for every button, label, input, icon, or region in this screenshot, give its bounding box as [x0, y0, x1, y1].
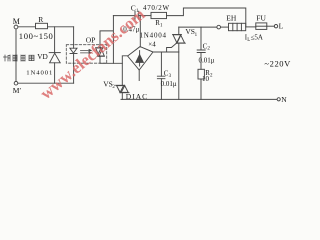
svg-text:L: L [279, 22, 284, 31]
svg-text:1N4001: 1N4001 [26, 69, 53, 76]
wire bridge bottom stub [138, 70, 140, 81]
wire corner down to LED anode [73, 27, 75, 48]
resistor R2 [198, 69, 204, 79]
terminal M' [14, 81, 18, 85]
wire bridge top feed [139, 16, 141, 47]
wire bottom-left bus [18, 82, 74, 84]
capacitor C2 [200, 27, 202, 50]
svg-text:10: 10 [202, 75, 210, 83]
fuse FU [256, 23, 267, 30]
terminal L [274, 25, 277, 28]
wire photo-triac top feed [100, 16, 113, 64]
wire VD bottom lead [54, 63, 56, 83]
svg-text:VS: VS [103, 79, 113, 88]
wire photo-triac bottom to node [100, 56, 122, 63]
capacitor C3 [160, 52, 162, 76]
wire EH row [179, 26, 217, 28]
heater EH [229, 23, 246, 30]
svg-text:×4: ×4 [148, 40, 156, 48]
diode VD [49, 52, 60, 54]
svg-text:FU: FU [256, 13, 266, 22]
triac VS1 gate [167, 43, 177, 52]
svg-text:N: N [281, 95, 287, 104]
optocoupler OP dashed box [66, 45, 106, 64]
svg-text:EH: EH [226, 14, 237, 23]
wire VD top lead [54, 27, 56, 53]
svg-text:~220V: ~220V [264, 59, 291, 69]
svg-text:R: R [38, 15, 43, 24]
svg-text:1N4004: 1N4004 [140, 32, 167, 40]
svg-text:0.01μ: 0.01μ [161, 80, 177, 88]
svg-text:100~150: 100~150 [19, 31, 54, 41]
wire FU to L [267, 25, 275, 27]
wire R to LED corner [48, 26, 74, 28]
bottom bus [121, 98, 277, 100]
svg-text:M′: M′ [13, 86, 22, 95]
resistor R1 [151, 12, 167, 18]
photo-triac of OP [96, 47, 103, 49]
terminal M [14, 25, 18, 29]
wire bridge right to triac column [153, 51, 179, 53]
triac VS1 [178, 27, 180, 34]
opto arrows [81, 49, 92, 51]
wire R1 right, up, top rail [167, 8, 246, 27]
resistor R [36, 23, 48, 28]
wire C1 right to R1 [139, 15, 151, 17]
svg-text:≤5A: ≤5A [251, 34, 263, 42]
wire M down to M' [15, 29, 17, 81]
svg-text:VD: VD [37, 52, 48, 61]
svg-text:0.01μ: 0.01μ [199, 57, 215, 65]
LED of OP [70, 48, 77, 53]
wire M to R [18, 26, 36, 28]
wire EH to FU [246, 26, 256, 28]
DIAC VS2 [116, 84, 125, 86]
svg-text:470/2W: 470/2W [143, 4, 170, 12]
wire C1 left [113, 15, 135, 17]
wire node down to DIAC, stub to bridge left vertex [122, 56, 127, 86]
terminal N [277, 98, 280, 101]
wire LED cathode to bus [73, 54, 75, 84]
svg-text:M: M [13, 17, 20, 26]
label 控制电源VD (control supply) [4, 55, 35, 61]
capacitor C1 [135, 11, 139, 19]
junction circle before EH [217, 25, 221, 29]
svg-text:VS: VS [185, 27, 195, 36]
bridge rectifier 1N4004 x4 [128, 47, 153, 70]
